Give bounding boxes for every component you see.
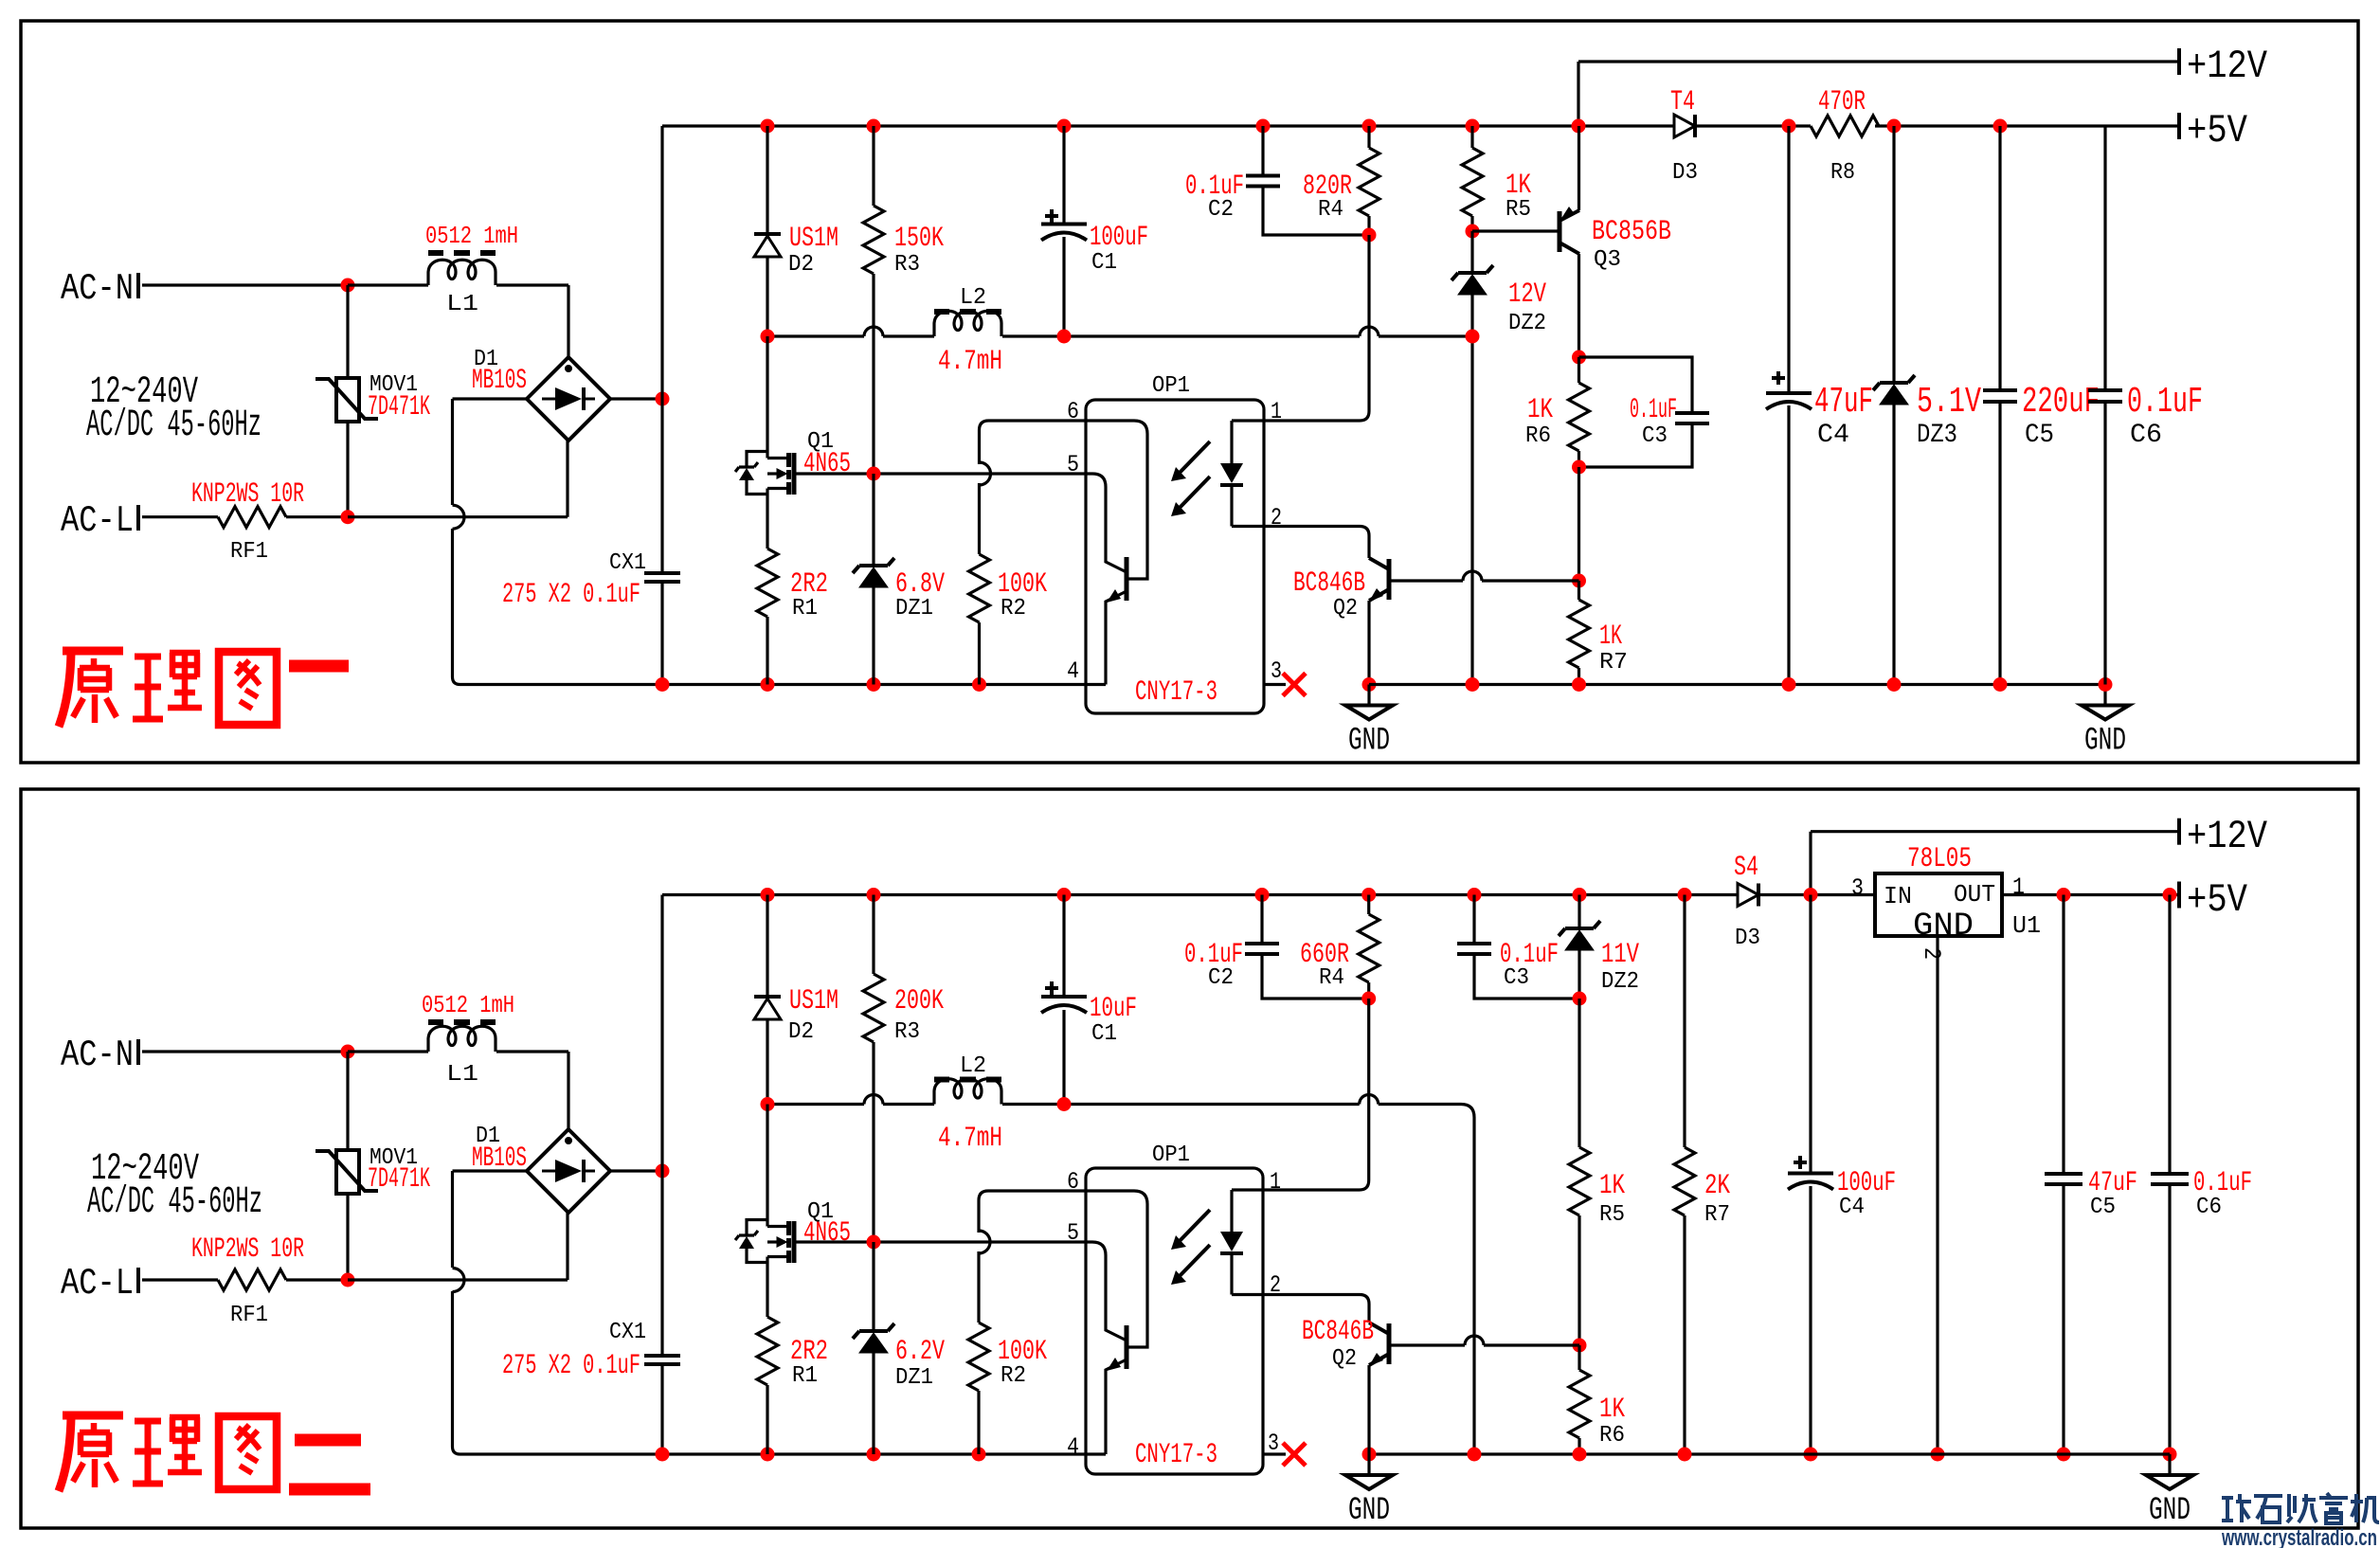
node ground rail / C3 column (sch2) bbox=[1468, 1448, 1482, 1462]
node ground rail / C5 (sch1) bbox=[1993, 677, 2008, 692]
wire to C3 top (sch1) bbox=[1579, 357, 1693, 413]
node ground rail / DZ1 (sch1) bbox=[867, 677, 881, 692]
svg-text:Q2: Q2 bbox=[1332, 1346, 1357, 1372]
phototransistor inside OP1 (sch1) bbox=[1125, 557, 1129, 601]
wire ground rail left section (sch1) bbox=[662, 683, 1106, 686]
node ground rail / R2 (sch2) bbox=[972, 1448, 986, 1462]
wire junction to L1 (sch1) bbox=[348, 283, 428, 286]
capacitor C2 (sch2) value 0.1uF bbox=[1245, 944, 1279, 954]
svg-text:1K: 1K bbox=[1599, 621, 1622, 653]
wire rail to C2 (sch1) bbox=[1261, 126, 1264, 176]
svg-text:BC856B: BC856B bbox=[1592, 216, 1671, 248]
capacitor C1 (sch2) value 10uF bbox=[1041, 995, 1087, 999]
wire R4 to node (sch1) bbox=[1367, 216, 1370, 235]
resistor R7 (sch2) value 2K bbox=[1674, 1147, 1695, 1215]
title 原理图一 (sch1) bbox=[59, 651, 277, 727]
LED inside OP1 (sch1) bbox=[1232, 421, 1264, 527]
node ground rail / R6 (sch2) bbox=[1573, 1448, 1587, 1462]
wire bridge minus down with hop over AC-L (sch1) bbox=[453, 399, 663, 685]
svg-text:+5V: +5V bbox=[2187, 108, 2247, 153]
wire rail to C5 (sch1) bbox=[1998, 126, 2001, 390]
node rail / C5 (sch1) bbox=[1993, 119, 2008, 134]
zener diode DZ2 (sch2) value 11V bbox=[1559, 921, 1600, 936]
node ground rail / C5 (sch2) bbox=[2057, 1448, 2071, 1462]
node Q2 emitter ground node (sch1) bbox=[1362, 677, 1377, 692]
node DZ2 node (sch1) bbox=[1466, 330, 1480, 344]
svg-text:D3: D3 bbox=[1672, 160, 1698, 186]
resistor R3 (sch2) value 200K bbox=[863, 974, 884, 1042]
svg-text:CNY17-3: CNY17-3 bbox=[1135, 676, 1217, 709]
node ground rail / U1 (sch2) bbox=[1931, 1448, 1945, 1462]
svg-text:C5: C5 bbox=[2090, 1195, 2116, 1220]
node rail / R5 (sch1) bbox=[1466, 119, 1480, 134]
node ground rail / CX1 (sch2) bbox=[656, 1448, 670, 1462]
wire L1 to bridge (sch1) bbox=[496, 283, 568, 286]
svg-text:1: 1 bbox=[1270, 1168, 1281, 1196]
wire OP1 pin2 to Q2 (sch1) bbox=[1264, 527, 1369, 559]
node ground rail / DZ3 (sch1) bbox=[1887, 677, 1902, 692]
wire DZ2 to node (sch2) bbox=[1578, 950, 1580, 999]
wire bridge minus (sch2) bbox=[453, 1169, 528, 1172]
svg-text:CX1: CX1 bbox=[609, 1320, 646, 1345]
wire rail to D2 (sch1) bbox=[766, 126, 768, 234]
svg-text:C6: C6 bbox=[2130, 421, 2162, 450]
svg-text:150K: 150K bbox=[894, 223, 944, 255]
wire secondary node line with hops (sch1) bbox=[767, 334, 1472, 337]
+12V terminal (sch1) bbox=[2177, 48, 2181, 75]
wire rail to Q3 emitter (sch1) bbox=[1578, 126, 1580, 210]
wire R5 to node (sch1) bbox=[1470, 216, 1473, 231]
svg-text:5.1V: 5.1V bbox=[1917, 382, 1981, 423]
capacitor C3 (sch2) value 0.1uF bbox=[1457, 944, 1491, 954]
wire node to R5 (sch2) bbox=[1578, 999, 1580, 1147]
node rail / R4 (sch2) bbox=[1361, 888, 1376, 902]
node rail / R3 (sch2) bbox=[867, 888, 881, 902]
op-amp U? no: optocoupler OP1 (sch1) value CNY17-3 bbox=[1086, 400, 1264, 713]
svg-text:5: 5 bbox=[1067, 1219, 1079, 1247]
wire C5 to ground rail (sch1) bbox=[1998, 402, 2001, 685]
svg-text:R2: R2 bbox=[1001, 596, 1026, 621]
svg-text:1K: 1K bbox=[1599, 1170, 1625, 1202]
svg-text:DZ3: DZ3 bbox=[1917, 421, 1957, 450]
wire to Q2 node (sch1) bbox=[1578, 467, 1580, 581]
+12V terminal (sch2) bbox=[2177, 819, 2181, 845]
svg-text:6: 6 bbox=[1067, 1168, 1079, 1196]
svg-text:GND: GND bbox=[1913, 909, 1974, 945]
node AC-L / MOV1 bottom (sch2) bbox=[341, 1273, 355, 1287]
node rail / C1 (sch1) bbox=[1057, 119, 1072, 134]
capacitor C2 (sch1) value 0.1uF bbox=[1246, 176, 1280, 187]
resistor R6 (sch1) value 1K bbox=[1569, 383, 1590, 451]
wire R1 to ground rail (sch2) bbox=[766, 1385, 768, 1454]
node ground rail right end (sch1) bbox=[2099, 677, 2113, 692]
wire Q1 gate line to OP1 pin5 (sch2) bbox=[795, 1240, 1086, 1243]
wire DZ2 to node (sch1) bbox=[1470, 295, 1473, 336]
schematic 1 border frame bbox=[21, 21, 2358, 763]
wire node to DZ1 (sch2) bbox=[872, 1242, 874, 1331]
svg-text:7D471K: 7D471K bbox=[368, 1163, 430, 1196]
wire C2 bottom to R4 (sch2) bbox=[1262, 954, 1369, 999]
wire ground rail right section (sch1) bbox=[1369, 683, 2105, 686]
resistor R4 (sch2) value 660R bbox=[1359, 914, 1379, 982]
node C2/R4 junction (sch1) bbox=[1362, 228, 1377, 243]
svg-text:C1: C1 bbox=[1091, 250, 1117, 276]
resistor R5 (sch1) value 1K bbox=[1462, 148, 1483, 216]
svg-text:C2: C2 bbox=[1208, 197, 1234, 223]
wire C3 bottom (sch1) bbox=[1579, 423, 1693, 467]
svg-text:1K: 1K bbox=[1527, 394, 1553, 426]
svg-text:AC-N: AC-N bbox=[61, 1035, 134, 1076]
svg-text:2K: 2K bbox=[1704, 1170, 1730, 1202]
bridge rectifier D1 (sch2) value MB10S bbox=[527, 1129, 610, 1213]
wire Q3 collector down (sch1) bbox=[1578, 254, 1580, 357]
resistor R8 (sch1) value 470R bbox=[1811, 116, 1879, 136]
svg-text:AC/DC 45-60Hz: AC/DC 45-60Hz bbox=[86, 405, 261, 447]
node rail / +12V tap / Q3 (sch1) bbox=[1572, 119, 1586, 134]
title 原理图二 (sch2) bbox=[59, 1415, 277, 1491]
svg-text:BC846B: BC846B bbox=[1293, 567, 1365, 600]
svg-text:200K: 200K bbox=[894, 985, 944, 1017]
svg-text:R6: R6 bbox=[1599, 1423, 1625, 1449]
node ground rail right end (sch2) bbox=[2163, 1448, 2177, 1462]
ground (sch1 right) bbox=[2103, 685, 2106, 706]
wire to Q3 base (sch1) bbox=[1472, 229, 1558, 232]
svg-text:Q3: Q3 bbox=[1594, 247, 1621, 273]
node rail / D2 (sch1) bbox=[761, 119, 775, 134]
svg-text:R4: R4 bbox=[1318, 197, 1343, 223]
wire L1 to bridge (sch2) bbox=[496, 1050, 568, 1053]
svg-text:1: 1 bbox=[2012, 873, 2025, 901]
svg-text:www.crystalradio.cn: www.crystalradio.cn bbox=[2221, 1525, 2377, 1548]
svg-text:US1M: US1M bbox=[789, 985, 838, 1017]
wire AC-L to bridge bottom (sch2) bbox=[348, 1278, 568, 1281]
resistor R7 (sch1) value 1K bbox=[1569, 600, 1590, 668]
light arrows inside OP1 (sch1) bbox=[1178, 441, 1210, 475]
svg-text:DZ1: DZ1 bbox=[895, 1365, 933, 1391]
svg-text:0.1uF: 0.1uF bbox=[2127, 382, 2203, 423]
svg-text:R6: R6 bbox=[1525, 423, 1551, 449]
svg-text:OUT: OUT bbox=[1954, 880, 1995, 909]
wire bridge plus (sch1) bbox=[610, 397, 662, 400]
svg-text:5: 5 bbox=[1067, 451, 1079, 478]
node ground rail / R1 (sch2) bbox=[761, 1448, 775, 1462]
svg-text:C4: C4 bbox=[1839, 1195, 1865, 1220]
wire pin3 stub (sch2) bbox=[1263, 1452, 1286, 1455]
svg-text:R1: R1 bbox=[792, 596, 818, 621]
svg-text:0.1uF: 0.1uF bbox=[1630, 394, 1677, 426]
svg-text:DZ2: DZ2 bbox=[1601, 969, 1639, 995]
wire up to bridge bottom vertex (sch1) bbox=[566, 441, 568, 517]
svg-text:Q2: Q2 bbox=[1333, 596, 1358, 621]
node ground rail / R1 (sch1) bbox=[761, 677, 775, 692]
wire secondary node line with hops (sch2) bbox=[767, 1105, 1474, 1455]
resistor R1 (sch2) value 2R2 bbox=[757, 1317, 778, 1385]
wire RF1 to junction (sch1) bbox=[286, 515, 348, 518]
capacitor C1 (sch1) value 100uF bbox=[1041, 223, 1087, 226]
svg-text:GND: GND bbox=[2149, 1493, 2191, 1529]
wire rail to C2 (sch2) bbox=[1260, 895, 1263, 945]
node AC-N / MOV1 top (sch1) bbox=[341, 279, 355, 293]
node C1 bottom (sch1) bbox=[1057, 330, 1072, 344]
node rail / C3 (sch2) bbox=[1468, 888, 1482, 902]
wire R1 to ground rail (sch1) bbox=[766, 617, 768, 685]
svg-text:AC-L: AC-L bbox=[61, 500, 134, 542]
node Q2 base / R6 junction (sch2) bbox=[1573, 1339, 1587, 1353]
svg-text:R1: R1 bbox=[792, 1363, 818, 1389]
+12V rail (sch1) bbox=[1578, 62, 2179, 126]
diode D2 (sch1) value US1M bbox=[754, 232, 781, 236]
svg-text:1: 1 bbox=[1271, 398, 1282, 425]
wire Q2 emitter to ground (sch1) bbox=[1367, 601, 1370, 685]
diode S4 / D3 (sch2) bbox=[1738, 884, 1758, 907]
svg-text:275 X2 0.1uF: 275 X2 0.1uF bbox=[502, 1350, 640, 1382]
wire D2 to node (sch1) bbox=[766, 257, 768, 336]
node D2/L2 node (sch2) bbox=[761, 1097, 775, 1111]
svg-text:MB10S: MB10S bbox=[472, 365, 527, 397]
svg-text:CX1: CX1 bbox=[609, 550, 646, 576]
watermark logo 矿石收音机 bbox=[2222, 1493, 2379, 1523]
svg-text:C4: C4 bbox=[1817, 421, 1849, 450]
svg-text:7D471K: 7D471K bbox=[368, 391, 430, 423]
resistor R6 (sch2) value 1K bbox=[1569, 1370, 1590, 1438]
wire OP1 pin2 to Q2 (sch2) bbox=[1263, 1295, 1369, 1323]
wire bridge minus (sch1) bbox=[453, 397, 528, 400]
MOSFET Q1 (sch2) value 4N65 bbox=[786, 1221, 791, 1263]
node rail / DZ2 (sch2) bbox=[1573, 888, 1587, 902]
svg-text:1K: 1K bbox=[1599, 1394, 1625, 1426]
node ground rail / DZ2 (sch1) bbox=[1466, 677, 1480, 692]
wire OP1 pin6 to R2 with hop over gate line (sch1) bbox=[980, 421, 1087, 554]
inductor L1 (sch1) bbox=[428, 260, 496, 285]
svg-text:R5: R5 bbox=[1599, 1202, 1625, 1228]
wire R2 to ground rail (sch1) bbox=[978, 622, 981, 685]
svg-text:47uF: 47uF bbox=[1814, 382, 1873, 423]
resistor R2 (sch1) value 100K bbox=[969, 554, 990, 622]
capacitor C6 (sch1) value 0.1uF bbox=[2088, 390, 2122, 402]
node ground rail / R7 (sch1) bbox=[1572, 677, 1586, 692]
svg-text:R3: R3 bbox=[894, 1019, 920, 1045]
zener diode DZ3 (sch1) value 5.1V bbox=[1873, 375, 1915, 390]
svg-text:C6: C6 bbox=[2196, 1195, 2222, 1220]
wire R3 to gate node (sch1) bbox=[872, 274, 874, 474]
resistor R2 (sch2) value 100K bbox=[968, 1323, 989, 1391]
wire C6 to ground rail (sch2) bbox=[2168, 1184, 2171, 1454]
node ground rail / R7 (sch2) bbox=[1678, 1448, 1692, 1462]
wire R4 to node (sch2) bbox=[1367, 982, 1370, 999]
svg-text:0512 1mH: 0512 1mH bbox=[425, 222, 518, 250]
node ground rail / C4 (sch2) bbox=[1804, 1448, 1818, 1462]
svg-text:4N65: 4N65 bbox=[803, 448, 851, 480]
node bridge output (sch1) bbox=[656, 392, 670, 406]
node gate / R3 / DZ1 junction (sch2) bbox=[867, 1235, 881, 1250]
light arrows inside OP1 (sch2) bbox=[1178, 1210, 1210, 1243]
node D2/L2 node (sch1) bbox=[761, 330, 775, 344]
capacitor C3 (sch1) value 0.1uF bbox=[1675, 413, 1709, 423]
wire R7 to ground rail (sch1) bbox=[1578, 668, 1580, 685]
wire Q1 source to R1 (sch2) bbox=[766, 1257, 768, 1318]
svg-text:2: 2 bbox=[1271, 504, 1282, 531]
node rail / C4 (sch1) bbox=[1782, 119, 1796, 134]
node Q3 collector / R6 / C3 junction (sch1) bbox=[1572, 351, 1586, 365]
wire C6 to ground rail (sch1) bbox=[2103, 402, 2106, 685]
svg-text:L1: L1 bbox=[446, 1062, 478, 1088]
+12V rail (sch2) bbox=[1811, 832, 2179, 895]
wire RF1 to junction (sch2) bbox=[286, 1278, 348, 1281]
wire left vertical with capacitor CX1 (sch1) bbox=[660, 126, 663, 685]
svg-text:R5: R5 bbox=[1506, 197, 1531, 223]
capacitor C5 (sch1) value 220uF bbox=[1983, 390, 2017, 402]
svg-text:78L05: 78L05 bbox=[1907, 843, 1972, 875]
wire rail to R4 (sch1) bbox=[1367, 126, 1370, 148]
wire main rail (sch1) bbox=[662, 124, 2179, 127]
svg-text:OP1: OP1 bbox=[1152, 1143, 1190, 1168]
wire rail to C6 (sch2) bbox=[2168, 895, 2171, 1175]
capacitor C6 (sch2) value 0.1uF bbox=[2151, 1174, 2189, 1184]
resistor R1 (sch1) value 2R2 bbox=[757, 549, 778, 617]
svg-text:4.7mH: 4.7mH bbox=[938, 1123, 1002, 1155]
wire down to bridge top (sch1) bbox=[567, 285, 569, 357]
transistor Q2 (sch2) value BC846B bbox=[1387, 1323, 1392, 1364]
svg-text:470R: 470R bbox=[1818, 86, 1866, 118]
svg-text:6: 6 bbox=[1067, 398, 1079, 425]
node ground rail / DZ1 (sch2) bbox=[867, 1448, 881, 1462]
node rail / R7 (sch2) bbox=[1678, 888, 1692, 902]
wire rail to R7 (sch2) bbox=[1683, 895, 1686, 1148]
wire node to R6 (sch1) bbox=[1578, 357, 1580, 383]
svg-text:220uF: 220uF bbox=[2022, 382, 2100, 423]
resistor R3 (sch1) value 150K bbox=[863, 206, 884, 274]
node rail / C6 (sch2) bbox=[2163, 888, 2177, 902]
+5V terminal (sch1) bbox=[2177, 113, 2181, 139]
wire node to R6 (sch2) bbox=[1578, 1345, 1580, 1370]
svg-text:RF1: RF1 bbox=[230, 539, 268, 565]
wire node to DZ1 (sch1) bbox=[872, 474, 874, 566]
svg-text:GND: GND bbox=[1348, 1493, 1390, 1529]
wire rail to C3 (sch2) bbox=[1472, 895, 1475, 945]
wire ground rail left section (sch2) bbox=[662, 1452, 1106, 1455]
capacitor C4 (sch2) value 100uF bbox=[1788, 1172, 1833, 1176]
wire MOV1 top lead (sch1) bbox=[346, 285, 349, 378]
wire AC-L to bridge bottom (sch1) bbox=[348, 515, 568, 518]
wire bridge minus down with hop over AC-L (sch2) bbox=[453, 1171, 663, 1454]
capacitor C4 (sch1) value 47uF bbox=[1766, 391, 1812, 395]
zener diode DZ1 (sch2) value 6.2V bbox=[853, 1323, 894, 1339]
wire ground rail right section (sch2) bbox=[1369, 1452, 2170, 1455]
svg-text:100uF: 100uF bbox=[1090, 222, 1148, 254]
resistor RF1 (sch2) value KNP2WS 10R bbox=[218, 1269, 286, 1290]
wire C1 to node (sch1) bbox=[1062, 237, 1065, 336]
wire MOV1 bottom lead (sch2) bbox=[346, 1194, 349, 1280]
svg-text:275 X2 0.1uF: 275 X2 0.1uF bbox=[502, 579, 640, 611]
wire down to bridge top (sch2) bbox=[567, 1052, 569, 1129]
svg-text:4N65: 4N65 bbox=[803, 1217, 851, 1250]
wire node to Q1 drain (sch2) bbox=[766, 1105, 768, 1227]
resistor R5 (sch2) value 1K bbox=[1569, 1147, 1590, 1215]
svg-text:GND: GND bbox=[2084, 724, 2126, 760]
MOSFET Q1 (sch1) value 4N65 bbox=[786, 453, 791, 495]
inductor L2 (sch2) bbox=[934, 1079, 1001, 1105]
wire rail to D2 (sch2) bbox=[766, 895, 768, 998]
ground (sch2 left) bbox=[1367, 1454, 1370, 1475]
wire C4 to ground rail (sch2) bbox=[1809, 1186, 1812, 1454]
node C2/R4 junction (sch2) bbox=[1361, 992, 1376, 1006]
wire pin3 stub (sch1) bbox=[1264, 683, 1286, 686]
wire rail to R3 (sch2) bbox=[872, 895, 874, 975]
svg-text:C3: C3 bbox=[1504, 965, 1529, 991]
svg-text:3: 3 bbox=[1851, 874, 1864, 902]
wire DZ1 to ground rail (sch2) bbox=[872, 1353, 874, 1454]
svg-text:C2: C2 bbox=[1208, 965, 1234, 991]
svg-text:KNP2WS 10R: KNP2WS 10R bbox=[191, 478, 304, 511]
capacitor CX1 (sch1) value 275 X2 0.1uF bbox=[644, 573, 680, 582]
svg-text:KNP2WS 10R: KNP2WS 10R bbox=[191, 1233, 304, 1266]
wire DZ3 to ground rail (sch1) bbox=[1892, 405, 1895, 685]
svg-text:D3: D3 bbox=[1735, 926, 1760, 951]
node rail / R3 (sch1) bbox=[867, 119, 881, 134]
svg-text:+5V: +5V bbox=[2187, 877, 2247, 923]
wire R6 to ground rail (sch2) bbox=[1578, 1438, 1580, 1454]
svg-text:C5: C5 bbox=[2025, 421, 2054, 450]
resistor RF1 (sch1) value KNP2WS 10R bbox=[218, 507, 286, 528]
wire R7 to ground rail (sch2) bbox=[1683, 1215, 1686, 1454]
svg-text:R3: R3 bbox=[894, 252, 920, 278]
svg-text:3: 3 bbox=[1271, 657, 1282, 685]
node AC-N / MOV1 top (sch2) bbox=[341, 1045, 355, 1059]
ground (sch1 left) bbox=[1367, 685, 1370, 706]
node gate / R3 / DZ1 junction (sch1) bbox=[867, 467, 881, 481]
svg-text:11V: 11V bbox=[1601, 939, 1639, 971]
svg-text:S4: S4 bbox=[1734, 852, 1758, 884]
wire AC-L to RF1 (sch1) bbox=[142, 515, 218, 518]
node rail / C2 (sch1) bbox=[1256, 119, 1271, 134]
svg-text:OP1: OP1 bbox=[1152, 373, 1190, 399]
wire AC-L to RF1 (sch2) bbox=[142, 1278, 218, 1281]
wire D2 to node (sch2) bbox=[766, 1019, 768, 1105]
wire C4 to ground rail (sch1) bbox=[1787, 405, 1790, 685]
wire rail to C4 (sch1) bbox=[1787, 126, 1790, 393]
svg-text:+12V: +12V bbox=[2187, 44, 2267, 89]
node C1 bottom (sch2) bbox=[1057, 1097, 1072, 1111]
svg-text:0512 1mH: 0512 1mH bbox=[422, 991, 514, 1019]
optocoupler OP1 (sch2) value CNY17-3 bbox=[1086, 1168, 1263, 1474]
svg-text:AC/DC 45-60Hz: AC/DC 45-60Hz bbox=[87, 1181, 262, 1224]
node rail / C5 (sch2) bbox=[2057, 888, 2071, 902]
svg-text:GND: GND bbox=[1348, 724, 1390, 760]
wire junction to L1 (sch2) bbox=[348, 1050, 428, 1053]
wire up to bridge bottom vertex (sch2) bbox=[566, 1213, 568, 1280]
svg-text:R2: R2 bbox=[1001, 1363, 1026, 1389]
svg-text:12V: 12V bbox=[1508, 279, 1546, 311]
svg-text:10uF: 10uF bbox=[1090, 993, 1137, 1025]
svg-text:R4: R4 bbox=[1319, 965, 1344, 991]
svg-text:R8: R8 bbox=[1830, 160, 1855, 186]
svg-text:C3: C3 bbox=[1642, 423, 1668, 449]
zener diode DZ1 (sch1) value 6.8V bbox=[853, 558, 894, 573]
wire rail to R5 (sch1) bbox=[1470, 126, 1473, 148]
svg-text:+12V: +12V bbox=[2187, 814, 2267, 859]
wire R2 to ground rail (sch2) bbox=[977, 1391, 980, 1454]
wire DZ2 column to ground rail (sch1) bbox=[1470, 336, 1473, 685]
svg-text:L1: L1 bbox=[446, 292, 478, 317]
LED inside OP1 (sch2) bbox=[1232, 1190, 1263, 1295]
zener diode DZ2 (sch1) value 12V bbox=[1451, 265, 1493, 280]
node R6/C3 bottom junction (sch1) bbox=[1572, 460, 1586, 475]
node rail / C1 (sch2) bbox=[1057, 888, 1072, 902]
svg-text:2: 2 bbox=[1918, 947, 1945, 960]
svg-text:AC-N: AC-N bbox=[61, 268, 134, 310]
svg-text:US1M: US1M bbox=[789, 223, 838, 255]
node bridge output (sch2) bbox=[656, 1164, 670, 1179]
